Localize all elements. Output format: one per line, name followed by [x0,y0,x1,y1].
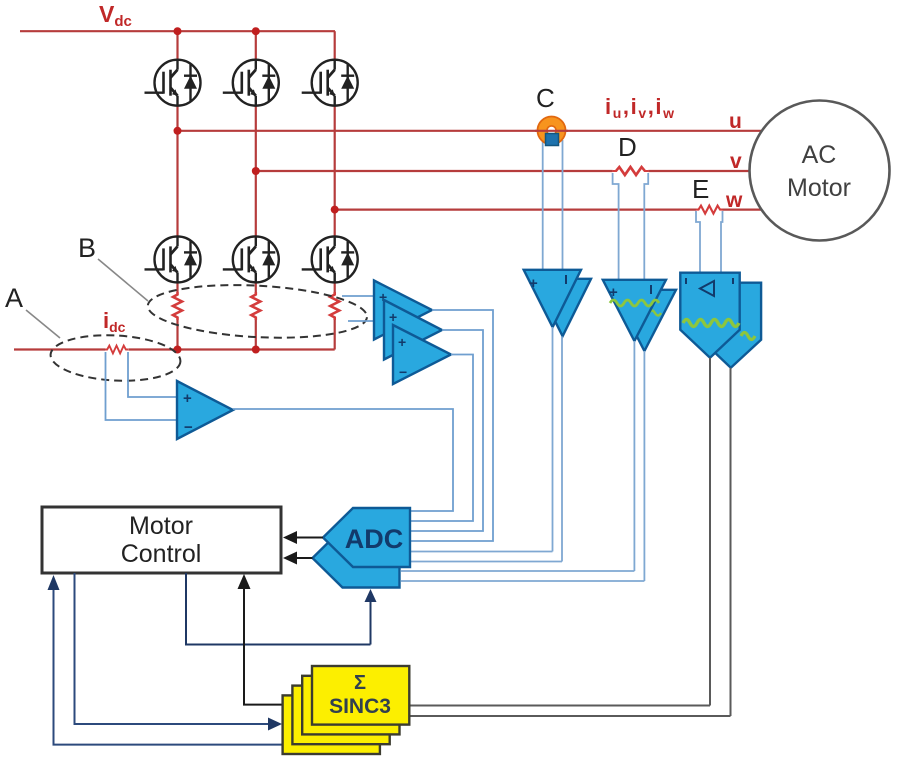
svg-text:Motor: Motor [129,512,193,540]
wires: modulator D outputs into ADC [401,570,634,572]
svg-text:Σ: Σ [354,672,366,694]
pointer line A [26,310,60,338]
transistor Q1 top [145,60,201,106]
wires: amp C outputs into ADC [411,551,553,553]
wires: amp C outputs down [552,327,554,552]
wire: leg1 shunt to return [176,320,178,350]
isolated modulator E1 (front) [680,273,739,358]
ADC block back [313,529,400,588]
op-amp A1 (idc amplifier) [177,381,233,439]
phase line v [256,170,613,172]
transistor Q6 bottom [302,236,358,282]
wire: leg3 vertical top [334,31,336,60]
phase line u [178,130,762,132]
amplifier C2 (back) [534,279,591,336]
wire: leg1 vertical top [176,31,178,60]
op-amp B3 [393,325,451,384]
junction dot phase u [174,127,182,135]
transistor Q5 bottom [223,236,279,282]
wire: SINC3 to MC (black, arrow up into MC) [244,588,284,705]
SINC3 stack rect 4 [283,695,380,754]
ADC block front [323,508,410,567]
op-amp B2 [384,300,442,360]
pointer line B [98,259,148,301]
svg-text:+: + [389,309,397,325]
resistor: idc shunt [105,346,128,354]
wire: MC clock to SINC3 (navy, arrow right) [75,573,272,724]
wire: idc shunt tap left to amp - [106,352,178,420]
transistor Q4 bottom [145,236,201,282]
wire: leg3 below igbt to shunt [334,282,336,292]
SINC3 stack rect 3 [292,686,389,745]
wire: stub to B amp1 [342,295,375,297]
wire: B2 output to ADC [411,330,483,531]
svg-text:ADC: ADC [345,524,404,554]
svg-text:u: u [729,110,742,133]
resistor: leg2 shunt [251,292,260,320]
wire: leg2 shunt to return [255,320,257,350]
current sensor C wires down [542,140,544,270]
svg-text:+: + [398,334,406,350]
resistor: shunt D on phase v [613,167,649,175]
wires: shunt E taps down to modulator [696,211,700,273]
svg-text:A: A [5,283,23,313]
wire: Vdc bus [20,30,335,32]
svg-text:+: + [183,390,192,407]
svg-text:−: − [399,364,407,380]
wires: modulator D outputs down [633,341,635,571]
svg-text:iu,iv,iw: iu,iv,iw [605,94,676,121]
modulator D1 (front) [603,280,666,341]
svg-text:SINC3: SINC3 [329,695,391,718]
isolated modulator E2 (back) [701,283,761,368]
wires: modulator E outputs to SINC3 [410,705,710,707]
junction dot bus leg1 [174,27,182,35]
svg-text:Vdc: Vdc [99,1,132,30]
svg-text:+: + [529,275,538,292]
svg-text:C: C [536,83,555,113]
current sensor C ring [542,121,560,139]
svg-text:E: E [692,174,709,204]
svg-text:−: − [184,419,193,436]
svg-text:AC: AC [802,141,837,169]
wires: modulator E outputs down [709,358,711,706]
dashed ellipse A [49,332,181,384]
wire: B3 output to ADC [411,355,473,522]
arrow ADC to MC 1 [283,531,323,544]
wires: shunt D taps down to amp [613,173,619,280]
svg-text:Motor: Motor [787,174,851,202]
wire: idc shunt tap right to amp + [128,352,177,397]
wire: SINC3 data to MC (navy, arrow up into MC) [54,589,351,745]
wire: amp A1 output to ADC [233,409,453,511]
svg-text:B: B [78,233,96,263]
junction dot phase v [252,167,260,175]
wire: MC to ADC trigger (navy) [186,573,371,645]
wire: dc return line [14,348,105,350]
junction dot return leg2 [252,346,260,354]
dashed ellipse B [147,280,369,343]
resistor: leg1 shunt [173,292,182,320]
amplifier C1 (front) [524,270,581,327]
wire: leg2 below igbt to shunt [255,282,257,292]
wire: stub to B amp2 [348,320,385,322]
transistor Q3 top [302,60,358,106]
wavy on back D [649,311,661,316]
resistor: leg3 shunt [330,292,339,320]
junction dot phase w [331,206,339,214]
svg-text:Control: Control [121,540,202,568]
op-amp B1 [374,281,432,340]
resistor: shunt E on phase w [696,206,723,214]
SINC3 front block [312,666,409,725]
transistor Q2 top [223,60,279,106]
wire: leg2 mid [255,106,257,238]
phase line w [335,209,696,211]
svg-text:v: v [730,150,742,173]
arrow ADC to MC 2 [283,552,313,565]
svg-text:idc: idc [103,308,126,335]
Motor Control box [42,507,281,573]
wire: leg2 vertical top [255,31,257,60]
SINC3 stack rect 2 [302,676,399,735]
wire: leg3 mid [334,106,336,238]
AC motor [750,101,890,241]
wire: leg3 shunt to return [334,320,336,350]
junction dot return leg1 [174,346,182,354]
junction dot bus leg2 [252,27,260,35]
svg-text:D: D [618,132,637,162]
wire: B1 output to ADC [411,310,493,541]
modulator D2 (back) [613,290,676,351]
wire: leg1 mid [176,106,178,238]
wire: leg1 below igbt to shunt [176,282,178,292]
svg-text:+: + [609,284,618,301]
svg-text:w: w [725,189,743,212]
